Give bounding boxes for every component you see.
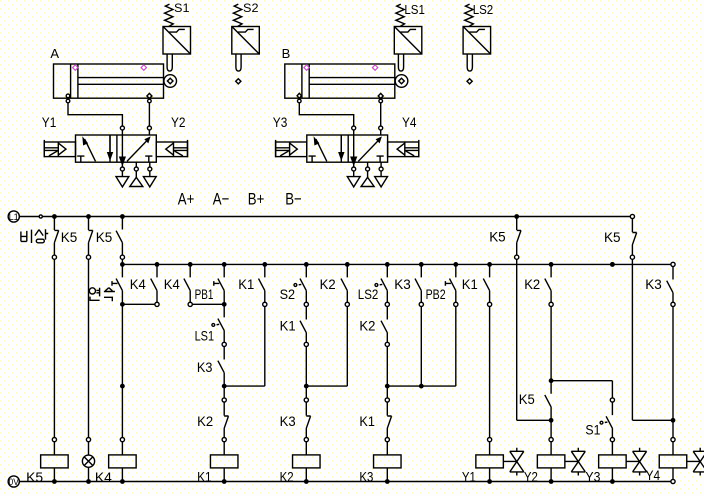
- svg-text:Y1: Y1: [462, 469, 476, 484]
- svg-text:K3: K3: [645, 276, 662, 292]
- svg-text:K3: K3: [197, 359, 213, 375]
- svg-text:B+: B+: [248, 190, 265, 209]
- svg-text:K2: K2: [320, 276, 336, 292]
- svg-text:K2: K2: [280, 468, 294, 484]
- svg-text:LS1: LS1: [404, 2, 425, 17]
- svg-text:LS2: LS2: [473, 2, 494, 17]
- svg-text:S2: S2: [243, 1, 259, 15]
- svg-text:K4: K4: [164, 276, 180, 292]
- svg-text:K1: K1: [359, 413, 375, 429]
- svg-text:B−: B−: [285, 190, 302, 209]
- svg-text:PB1: PB1: [195, 286, 214, 302]
- svg-text:K3: K3: [394, 276, 411, 292]
- svg-text:K4: K4: [130, 276, 146, 292]
- svg-text:S2: S2: [280, 286, 296, 302]
- svg-text:K5: K5: [61, 229, 78, 245]
- svg-text:K3: K3: [359, 468, 373, 484]
- svg-text:Y3: Y3: [273, 115, 288, 130]
- svg-text:L1: L1: [9, 212, 19, 222]
- svg-text:K5: K5: [519, 391, 535, 407]
- svg-text:Y4: Y4: [402, 115, 417, 130]
- svg-text:K4: K4: [95, 469, 112, 485]
- svg-text:K5: K5: [26, 469, 43, 485]
- svg-text:A+: A+: [178, 190, 195, 209]
- svg-text:K2: K2: [197, 413, 213, 429]
- svg-text:0V: 0V: [9, 477, 20, 487]
- svg-text:K1: K1: [197, 468, 212, 484]
- svg-text:K5: K5: [489, 229, 506, 245]
- svg-text:A−: A−: [213, 190, 230, 209]
- svg-text:LS2: LS2: [358, 286, 379, 302]
- svg-text:K5: K5: [604, 229, 621, 245]
- svg-text:PB2: PB2: [426, 286, 446, 302]
- svg-text:K1: K1: [238, 276, 254, 292]
- svg-text:K3: K3: [280, 413, 296, 429]
- svg-text:K1: K1: [280, 318, 296, 334]
- svg-text:S1: S1: [585, 422, 600, 438]
- svg-text:Y2: Y2: [171, 115, 186, 130]
- svg-text:LS1: LS1: [195, 328, 215, 344]
- svg-text:A: A: [50, 46, 59, 61]
- svg-text:K2: K2: [524, 276, 540, 292]
- svg-text:K2: K2: [359, 318, 375, 334]
- svg-text:Y1: Y1: [42, 115, 57, 130]
- svg-text:K5: K5: [96, 229, 113, 245]
- svg-text:K1: K1: [462, 276, 478, 292]
- svg-text:Y3: Y3: [585, 469, 600, 484]
- svg-text:Y2: Y2: [524, 469, 538, 484]
- svg-text:Y4: Y4: [646, 468, 661, 483]
- svg-text:S1: S1: [174, 1, 190, 15]
- svg-text:B: B: [282, 46, 291, 61]
